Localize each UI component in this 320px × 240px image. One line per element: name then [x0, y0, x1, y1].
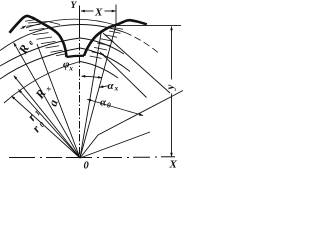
Re radius line w/arrow	[14, 43, 80, 158]
arrowhead at left end of Rx-P arc	[21, 26, 26, 29]
right tooth outline	[84, 20, 147, 56]
alpha_x label + leader	[100, 86, 108, 88]
X dimension	[81, 5, 116, 26]
pitch circle arc r1	[0, 48, 130, 79]
svg-text:X: X	[94, 6, 103, 18]
O to P3	[80, 31, 102, 159]
svg-text:α: α	[100, 97, 107, 109]
L1 tangent from P	[103, 33, 170, 93]
base circle arc r0	[4, 62, 118, 104]
svg-text:X: X	[169, 159, 178, 170]
left tooth outline	[10, 16, 67, 57]
left tooth hatching	[25, 20, 65, 56]
X axis	[9, 156, 175, 159]
fan lines from O	[12, 25, 184, 158]
right tooth hatching	[90, 28, 124, 59]
Rx circle arc through point P r=140	[26, 19, 116, 28]
r1 radius line w/arrow	[19, 90, 81, 159]
phi_x dimension	[82, 76, 102, 78]
y dimension	[117, 25, 181, 156]
svg-text:0: 0	[84, 161, 90, 170]
Q1 tangent radius	[80, 91, 183, 159]
svg-text:α: α	[108, 80, 115, 92]
svg-text:x: x	[68, 64, 73, 73]
svg-text:y: y	[165, 85, 177, 92]
R1 shallow line	[80, 132, 150, 158]
O to P radius	[80, 25, 116, 158]
Rx radius line w/arrow	[14, 76, 80, 158]
svg-text:x: x	[114, 84, 119, 93]
tip circle arc dashed right	[125, 33, 158, 53]
root arc	[67, 56, 85, 57]
r0 radius line w/arrow	[12, 96, 81, 158]
svg-text:0: 0	[107, 101, 111, 110]
a line	[37, 44, 80, 158]
tip circle arc Re	[0, 25, 125, 51]
Y axis	[79, 6, 81, 159]
intermediate circle arc	[0, 38, 124, 66]
alpha_0 label + leader	[87, 99, 143, 115]
L2 parallel tangent	[100, 52, 147, 98]
